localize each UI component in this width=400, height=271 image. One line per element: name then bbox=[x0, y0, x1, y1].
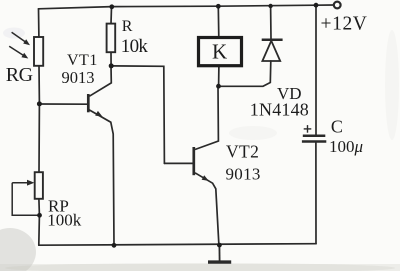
wire right vertical rail to capacitor bbox=[315, 5, 317, 134]
svg-text:K: K bbox=[212, 40, 227, 64]
node +12V corner bbox=[314, 3, 319, 8]
wire to +12V terminal bbox=[316, 4, 334, 6]
transistor VT2 bbox=[194, 86, 219, 245]
photoresistor RG bbox=[9, 32, 43, 66]
svg-text:RG: RG bbox=[6, 64, 33, 86]
diode VD bbox=[262, 40, 283, 61]
node VT1 base bbox=[37, 101, 42, 106]
svg-text:1N4148: 1N4148 bbox=[250, 100, 309, 120]
node VD top bbox=[268, 4, 272, 8]
wire wiper node to bottom rail bbox=[38, 215, 41, 245]
wire top rail to relay K bbox=[217, 6, 220, 37]
svg-text:100μ: 100μ bbox=[329, 137, 363, 156]
svg-text:9013: 9013 bbox=[62, 68, 95, 87]
node R top bbox=[109, 4, 114, 9]
wire VT2 base horizontal bbox=[164, 162, 192, 164]
node K top bbox=[216, 4, 221, 9]
capacitor C bbox=[302, 125, 326, 141]
terminal +12V bbox=[334, 2, 341, 9]
svg-text:VT2: VT2 bbox=[226, 142, 259, 162]
wire relay K bottom to node bbox=[218, 66, 220, 86]
wire top rail to diode VD bbox=[270, 6, 272, 39]
wire VT1 base node to RP top bbox=[38, 104, 40, 172]
wire R bottom to node bbox=[110, 52, 112, 65]
relay K bbox=[199, 38, 242, 66]
wire left vertical top (rail to RG) bbox=[38, 9, 40, 37]
svg-text:R: R bbox=[122, 18, 133, 35]
node RP wiper bbox=[37, 213, 42, 218]
node R bottom / VT1 collector bbox=[109, 63, 114, 68]
transistor VT1 bbox=[39, 66, 114, 245]
resistor R bbox=[107, 24, 116, 53]
svg-text:+12V: +12V bbox=[321, 14, 368, 35]
wire top rail bbox=[39, 5, 317, 9]
svg-text:C: C bbox=[331, 117, 343, 137]
svg-text:9013: 9013 bbox=[226, 165, 261, 184]
svg-text:100k: 100k bbox=[47, 211, 82, 230]
node K bottom / VT2 collector bbox=[216, 84, 221, 89]
svg-text:10k: 10k bbox=[121, 36, 149, 57]
node VT1 emitter ground bbox=[112, 243, 117, 248]
wire RG bottom to VT1 base node bbox=[38, 66, 40, 104]
wire capacitor to bottom rail bbox=[315, 143, 317, 244]
potentiometer RP bbox=[12, 172, 43, 215]
ground bbox=[208, 245, 231, 262]
svg-text:VT1: VT1 bbox=[67, 52, 98, 69]
wire RP bottom to wiper node bbox=[38, 199, 41, 216]
wire diode VD bottom to K node bbox=[219, 61, 271, 86]
wire top rail to R bbox=[110, 7, 113, 24]
wire node to VT2 base vertical run bbox=[111, 66, 164, 163]
node VT2 emitter ground bbox=[217, 243, 222, 248]
wire bottom rail bbox=[39, 244, 316, 246]
